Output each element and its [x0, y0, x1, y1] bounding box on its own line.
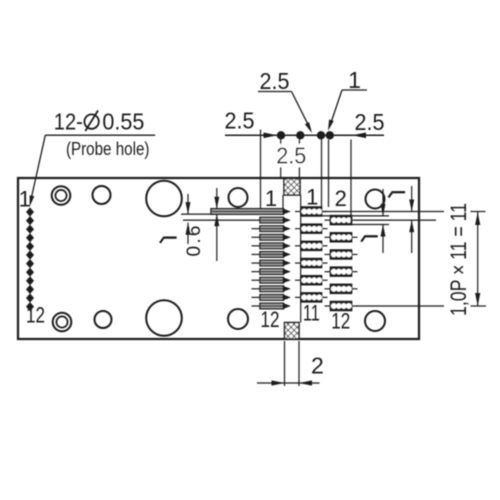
svg-text:2.5: 2.5 — [225, 107, 255, 133]
contact pin 11 (left row) — [252, 294, 291, 300]
ext line x351 — [350, 140, 352, 225]
hole bottom mid — [228, 309, 248, 329]
dim 0.6 (pin width) left — [184, 188, 219, 261]
ext line x281 — [280, 140, 282, 178]
board outline — [18, 178, 419, 339]
contact pin 6 (left row) — [252, 251, 291, 257]
dim pitch 1.0P x 11 = 11 — [446, 203, 480, 316]
contact pin 8 (left row) — [252, 269, 291, 275]
ext line x321 — [321, 140, 323, 208]
svg-text:11: 11 — [303, 301, 320, 326]
ext line pad1 centerline — [322, 211, 486, 213]
pad 3 (middle column) — [295, 224, 328, 233]
leader 2.5 top — [258, 68, 312, 133]
pad 4 (right column) — [325, 233, 358, 242]
ext line pad2 bottom edge — [352, 224, 390, 226]
contact pin 10 (left row) — [252, 286, 291, 292]
dim text 2.5 below (square width) — [275, 144, 307, 167]
dim 1 (pin pitch) left — [160, 194, 191, 244]
pad 1 (middle column) — [295, 207, 328, 216]
dim 1 (row offset) V1 — [361, 189, 385, 253]
chain dot A — [277, 131, 285, 139]
contact pin 5 (left row) — [252, 243, 291, 249]
hole top small — [93, 186, 111, 204]
dim 2 (bottom square width) — [257, 341, 324, 386]
contact pin 7 (left row) — [252, 260, 291, 266]
callout 12-dia 0.55 — [30, 108, 156, 206]
pad 12 (right column) — [325, 302, 358, 311]
hole bottom right — [365, 311, 385, 331]
pad 8 (right column) — [325, 267, 358, 276]
svg-text:12: 12 — [331, 309, 350, 334]
svg-text:2.5: 2.5 — [355, 109, 385, 135]
svg-text:(Probe hole): (Probe hole) — [66, 139, 150, 159]
ext line pad1 bottom edge — [322, 215, 390, 217]
chain dot C — [317, 131, 325, 139]
hole bottom small — [95, 311, 112, 328]
ext line pin1 bottom edge — [181, 213, 211, 215]
contact pin 2 (left row) — [183, 217, 291, 223]
hole top mid — [229, 188, 248, 207]
dimension chain line (top) — [225, 134, 384, 136]
contact pin 12 (left row) — [252, 303, 291, 309]
leader 1 top — [328, 67, 367, 131]
pad 5 (middle column) — [295, 241, 328, 250]
svg-text:1,0P × 11 = 11: 1,0P × 11 = 11 — [446, 203, 471, 316]
svg-text:2: 2 — [335, 186, 347, 211]
ext line x299 — [298, 140, 300, 178]
ext line pad12 centerline — [356, 305, 486, 307]
chain arrow right — [352, 133, 366, 139]
svg-text:2.5: 2.5 — [260, 68, 290, 94]
svg-text:12: 12 — [261, 307, 280, 332]
vertical line joining squares — [300, 195, 302, 323]
hole top right — [366, 190, 385, 209]
chain dot D — [326, 131, 334, 139]
ext line pad2 centerline — [356, 219, 436, 221]
hole bottom large — [146, 300, 182, 336]
fiducial pad bottom (hatched square) — [285, 323, 300, 340]
plated hole bottom-left — [53, 313, 72, 332]
svg-text:1: 1 — [306, 185, 318, 210]
pad 11 (middle column) — [295, 293, 328, 302]
pad 7 (middle column) — [295, 259, 328, 268]
contact pin 4 (left row) — [252, 234, 291, 240]
svg-text:1: 1 — [19, 186, 31, 211]
chain arrow left — [264, 133, 278, 139]
svg-text:2: 2 — [311, 352, 324, 378]
pad 2 (right column) — [325, 216, 358, 225]
svg-text:0.55: 0.55 — [102, 108, 144, 134]
contact pin 9 (left row) — [252, 277, 291, 283]
pad 6 (right column) — [325, 250, 358, 259]
svg-text:12: 12 — [26, 302, 45, 327]
contact pin 1 (left row) — [211, 208, 291, 214]
hole top large — [146, 181, 182, 217]
probe holes 1-12 (diamond column) — [26, 207, 34, 311]
stub below top square left — [282, 195, 284, 212]
fiducial pad top (hatched square) — [284, 179, 300, 196]
contact pin 3 (left row) — [252, 226, 291, 232]
chain dot B — [296, 131, 304, 139]
pad 10 (right column) — [325, 284, 358, 293]
svg-text:0.6: 0.6 — [184, 226, 205, 257]
ext line x260 — [260, 130, 262, 209]
svg-text:2.5: 2.5 — [276, 143, 306, 169]
svg-text:1: 1 — [348, 67, 361, 93]
svg-text:1: 1 — [265, 186, 277, 211]
dim 1 (row offset) V2 — [389, 186, 415, 253]
svg-text:12-: 12- — [54, 108, 83, 134]
ext line x328 — [328, 140, 330, 208]
plated hole top-left — [52, 186, 71, 205]
pad 9 (middle column) — [295, 276, 328, 285]
